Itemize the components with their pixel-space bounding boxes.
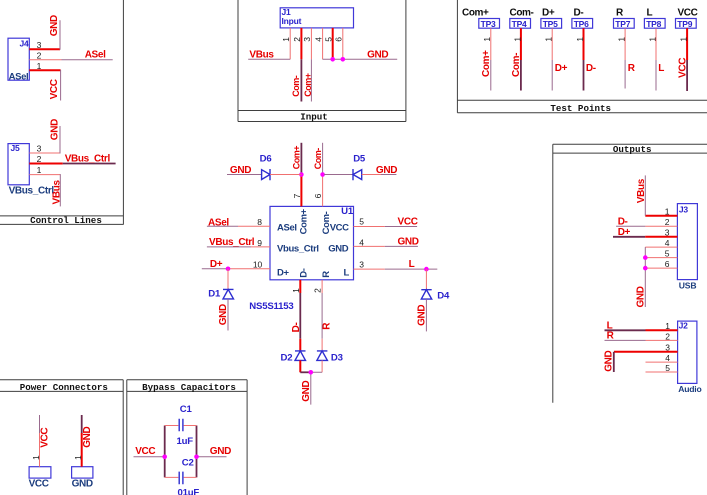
svg-text:D-: D- [574,7,584,18]
svg-text:Control Lines: Control Lines [30,215,102,226]
svg-text:4: 4 [665,238,670,248]
svg-text:5: 5 [324,37,334,42]
svg-text:ASel: ASel [85,49,106,60]
svg-text:L: L [658,63,664,74]
svg-text:D-: D- [291,323,302,333]
svg-text:Com-: Com- [511,53,522,77]
svg-text:TP9: TP9 [677,19,692,29]
svg-text:J5: J5 [11,143,21,153]
svg-text:GND: GND [636,286,647,307]
svg-text:TP5: TP5 [543,19,558,29]
svg-text:GND: GND [210,446,231,457]
svg-text:GND: GND [328,244,349,255]
svg-text:5: 5 [665,363,670,373]
svg-text:GND: GND [82,426,93,447]
svg-text:D+: D+ [618,227,631,238]
svg-text:J4: J4 [20,38,30,48]
svg-text:1uF: 1uF [177,436,194,447]
svg-text:10: 10 [253,259,263,269]
svg-text:GND: GND [49,15,60,36]
svg-text:GND: GND [604,350,615,371]
svg-text:1: 1 [647,37,657,42]
svg-text:Test Points: Test Points [550,103,611,114]
svg-text:4: 4 [313,37,323,42]
svg-text:USB: USB [679,281,697,291]
svg-text:01uF: 01uF [178,488,200,495]
svg-text:D5: D5 [353,153,366,164]
svg-text:D1: D1 [208,288,221,299]
svg-text:GND: GND [367,50,388,61]
svg-text:5: 5 [665,248,670,258]
svg-text:GND: GND [416,305,427,326]
svg-text:4: 4 [665,353,670,363]
svg-text:Com-: Com- [291,75,301,96]
svg-text:NS5S1153: NS5S1153 [249,301,293,312]
svg-text:Audio: Audio [678,384,701,394]
svg-text:D4: D4 [437,291,450,302]
svg-text:1: 1 [679,37,689,42]
svg-text:TP8: TP8 [646,19,661,29]
svg-text:VCC: VCC [135,446,155,457]
svg-text:Com+: Com+ [298,208,309,234]
svg-text:D-: D- [618,217,628,228]
svg-text:D-: D- [298,268,309,278]
svg-text:C1: C1 [180,404,193,415]
svg-text:Com+: Com+ [303,73,313,96]
svg-text:TP6: TP6 [574,19,589,29]
svg-text:1: 1 [482,37,492,42]
svg-text:J3: J3 [679,205,689,215]
svg-text:1: 1 [281,37,291,42]
svg-text:8: 8 [257,217,262,227]
svg-text:L: L [409,259,415,270]
svg-text:VBus: VBus [249,50,274,61]
svg-text:VBus_Ctrl: VBus_Ctrl [65,154,111,165]
svg-text:R: R [322,322,333,330]
svg-text:Power Connectors: Power Connectors [20,382,108,393]
svg-text:1: 1 [512,37,522,42]
svg-text:J2: J2 [679,320,689,330]
svg-text:Com-: Com- [321,211,332,234]
svg-text:GND: GND [50,119,61,140]
svg-text:6: 6 [334,37,344,42]
svg-text:Bypass Capacitors: Bypass Capacitors [142,382,236,393]
svg-text:VCC: VCC [678,7,698,18]
svg-text:VBus: VBus [636,178,647,203]
svg-text:VBus_Ctrl: VBus_Ctrl [9,186,55,197]
svg-text:Com-: Com- [510,7,534,18]
svg-text:TP3: TP3 [481,19,496,29]
svg-text:6: 6 [665,259,670,269]
svg-text:Input: Input [300,112,328,123]
svg-text:R: R [616,7,624,18]
svg-text:R: R [607,330,615,341]
svg-text:3: 3 [302,37,312,42]
svg-text:ASel: ASel [9,71,29,82]
svg-text:ASel: ASel [208,217,229,228]
svg-text:D-: D- [586,63,596,74]
svg-text:1: 1 [291,288,301,293]
svg-text:D+: D+ [542,7,555,18]
svg-text:2: 2 [312,288,322,293]
svg-text:3: 3 [37,144,42,154]
svg-text:2: 2 [292,37,302,42]
svg-text:D6: D6 [260,153,272,164]
svg-text:D+: D+ [555,63,568,74]
svg-text:1: 1 [665,207,670,217]
svg-text:TP7: TP7 [615,19,630,29]
svg-text:GND: GND [72,478,93,489]
svg-text:3: 3 [359,260,364,270]
svg-text:VCC: VCC [29,478,49,489]
svg-text:3: 3 [37,40,42,50]
svg-text:3: 3 [665,228,670,238]
svg-text:3: 3 [665,343,670,353]
svg-text:VBus: VBus [51,180,62,205]
svg-text:Input: Input [282,16,302,26]
svg-text:2: 2 [37,50,42,60]
svg-text:1: 1 [31,455,41,460]
svg-text:D3: D3 [331,353,343,364]
svg-text:ASel: ASel [277,222,297,233]
svg-text:D+: D+ [277,268,290,279]
svg-text:7: 7 [292,193,302,198]
svg-text:VCC: VCC [330,222,349,233]
svg-text:5: 5 [359,217,364,227]
svg-text:Com+: Com+ [462,7,489,18]
svg-text:4: 4 [359,238,364,248]
svg-text:1: 1 [665,321,670,331]
svg-text:Vbus_Ctrl: Vbus_Ctrl [277,244,319,255]
svg-text:1: 1 [544,37,554,42]
svg-text:TP4: TP4 [512,19,527,29]
svg-text:R: R [321,271,332,278]
svg-text:U1: U1 [341,206,354,217]
svg-text:1: 1 [73,455,83,460]
svg-text:Outputs: Outputs [613,144,652,155]
svg-text:D+: D+ [210,259,223,270]
svg-text:2: 2 [665,217,670,227]
svg-text:VCC: VCC [49,79,60,99]
svg-text:L: L [647,7,653,18]
svg-text:Com+: Com+ [481,50,492,77]
svg-text:GND: GND [218,304,229,325]
svg-text:6: 6 [313,193,323,198]
svg-text:VCC: VCC [40,428,51,448]
svg-text:VBus_Ctrl: VBus_Ctrl [209,237,255,248]
svg-text:VCC: VCC [398,217,418,228]
svg-text:GND: GND [301,380,312,401]
svg-text:VCC: VCC [677,58,688,78]
svg-text:Com-: Com- [313,148,323,169]
svg-text:1: 1 [37,165,42,175]
svg-text:D2: D2 [281,353,293,364]
svg-text:2: 2 [665,331,670,341]
svg-text:2: 2 [37,154,42,164]
svg-text:L: L [344,268,350,279]
svg-text:C2: C2 [182,458,194,469]
svg-text:GND: GND [398,237,419,248]
svg-text:R: R [628,63,636,74]
svg-text:Com+: Com+ [291,146,301,169]
svg-text:1: 1 [37,61,42,71]
svg-text:1: 1 [575,37,585,42]
svg-text:1: 1 [617,37,627,42]
svg-text:9: 9 [257,238,262,248]
